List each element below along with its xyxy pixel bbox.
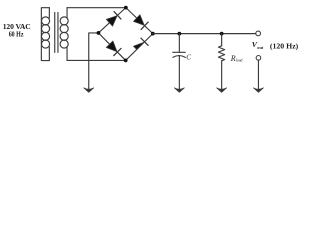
svg-text:60 Hz: 60 Hz [9,29,24,38]
ground (left) [84,88,94,93]
wire secondary bottom to bridge [67,59,126,61]
wire secondary top to bridge [67,7,126,9]
node bridge right [151,32,155,36]
terminal Vout - [256,56,261,61]
ground (under C) [174,88,184,93]
wire Vout - to ground [257,60,259,89]
capacitor C [173,34,186,89]
terminal Vout + [256,31,261,36]
wire bridge left corner to ground [89,33,99,89]
transformer T1 core [55,12,58,52]
ground (under Rload) [217,88,227,93]
diode D1 (bridge left-top edge) [98,8,125,33]
svg-text:(120 Hz): (120 Hz) [270,42,299,51]
ground (under Vout -) [253,88,263,93]
transformer T1 secondary winding [60,8,68,61]
svg-text:load: load [236,59,243,63]
diode D3 (bridge left-bottom edge) [98,33,125,61]
wire output rail [153,33,256,35]
node bridge bottom [124,59,128,63]
svg-text:out: out [257,45,264,50]
diode D2 (bridge top-right edge) [126,8,153,34]
resistor Rload [218,34,224,89]
wire primary input loop [41,8,49,61]
svg-text:C: C [186,54,191,62]
diode D4 (bridge bottom-right edge) [126,34,153,61]
node capacitor tap [177,32,181,36]
node bridge top [124,6,128,10]
transformer T1 primary winding [42,8,50,61]
node resistor tap [220,32,224,36]
node bridge left [97,31,101,35]
